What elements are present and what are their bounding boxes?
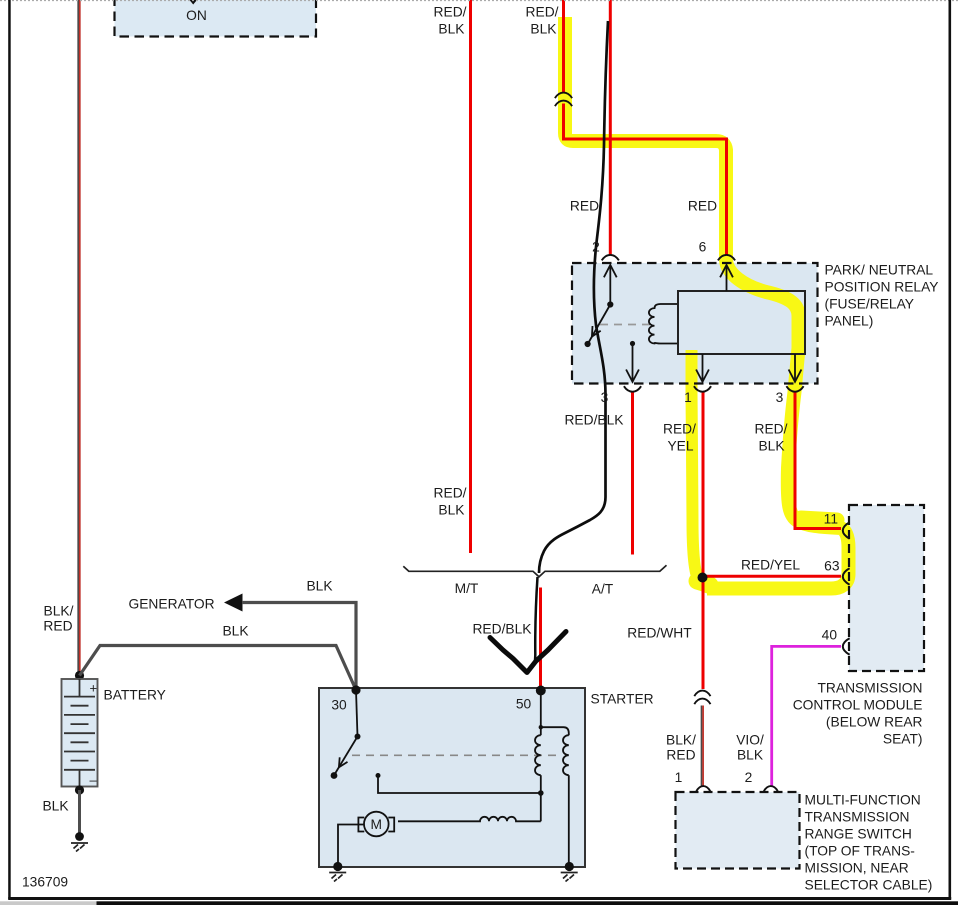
svg-text:RED/WHT: RED/WHT	[627, 625, 692, 640]
svg-text:2: 2	[745, 770, 753, 785]
wire RED/BLK from relay pin 3 left	[631, 393, 634, 555]
starter switch upper dot	[355, 734, 361, 740]
battery top terminal dot	[75, 671, 84, 680]
svg-text:40: 40	[822, 627, 838, 642]
range switch pin 1 connector cap	[696, 786, 710, 791]
relay pin 1 connector cup	[694, 386, 711, 392]
svg-text:SEAT): SEAT)	[883, 731, 923, 746]
range switch pin 2 connector cap	[764, 786, 778, 791]
svg-text:MISSION, NEAR: MISSION, NEAR	[805, 860, 909, 875]
wire RED to relay pin 2	[609, 0, 612, 255]
svg-text:BLK: BLK	[438, 21, 465, 36]
battery plates	[64, 697, 95, 770]
svg-text:BATTERY: BATTERY	[104, 687, 166, 702]
starter motor feed	[540, 793, 542, 821]
svg-text:RED: RED	[43, 618, 72, 633]
BLK/RED battery feed wire (dark stripe)	[77, 0, 79, 672]
svg-text:POSITION RELAY: POSITION RELAY	[825, 279, 939, 294]
relay pin 1 internal arrow down	[702, 354, 704, 380]
wire RED/YEL junction to TCM pin 63	[703, 575, 841, 578]
battery	[62, 671, 98, 852]
TCM pin 63 connector	[843, 568, 850, 584]
relay box fill	[572, 263, 818, 384]
svg-text:BLK: BLK	[222, 623, 249, 638]
highlight stroke A	[565, 17, 849, 589]
starter coil tail to junction	[540, 775, 542, 793]
starter solenoid branch	[541, 727, 569, 735]
relay pin 2 internal arrow up	[609, 266, 611, 305]
M/T A/T bracket	[403, 565, 666, 577]
svg-text:BLK/: BLK/	[666, 732, 696, 747]
highlight blob pin11	[801, 518, 837, 520]
highlight stroke B pin1	[692, 350, 713, 588]
transmission control module	[843, 505, 924, 671]
relay pin 3 right internal arrow down	[794, 354, 796, 380]
starter box fill	[319, 688, 585, 867]
svg-text:6: 6	[699, 239, 707, 254]
ignition ON box	[115, 0, 317, 37]
range switch box fill	[676, 792, 800, 869]
svg-text:TRANSMISSION: TRANSMISSION	[805, 809, 910, 824]
starter pull-in coil	[535, 735, 541, 775]
svg-text:BLK: BLK	[306, 578, 333, 593]
range switch dashed box	[676, 792, 800, 869]
svg-text:2: 2	[592, 239, 600, 254]
thick hand-drawn V arrow at starter feed	[490, 632, 566, 673]
starter hold-in coil	[563, 735, 569, 775]
svg-text:RED/: RED/	[434, 485, 467, 500]
black M/T wire from top	[539, 21, 608, 573]
svg-text:RED/YEL: RED/YEL	[741, 557, 800, 572]
inline connector on RED/BLK no.2	[555, 93, 572, 107]
wire BLK/RED to range switch pin 1 (red stripe)	[702, 706, 704, 787]
svg-text:1: 1	[684, 390, 692, 405]
battery ground symbol	[75, 832, 84, 841]
wire VIO/BLK to TCM pin 40	[772, 646, 841, 786]
svg-text:BLK: BLK	[438, 502, 465, 517]
relay pin 2 connector cap	[602, 255, 619, 261]
generator branch	[80, 594, 357, 691]
hold-in coil ground wire	[568, 775, 570, 864]
junction node dot	[698, 573, 708, 583]
svg-text:–: –	[90, 773, 98, 788]
starter	[319, 685, 585, 881]
motor ground wire	[338, 825, 364, 865]
svg-text:M: M	[371, 817, 383, 832]
svg-text:RED/BLK: RED/BLK	[564, 412, 624, 427]
generator BLK wire	[242, 603, 356, 690]
starter switch arm	[335, 737, 358, 775]
starter dashed actuation link	[352, 754, 557, 756]
svg-text:63: 63	[824, 558, 840, 573]
svg-text:A/T: A/T	[592, 581, 614, 596]
svg-text:VIO/: VIO/	[736, 732, 764, 747]
starter field winding	[398, 817, 541, 822]
highlighter strokes	[565, 17, 849, 589]
svg-text:TRANSMISSION: TRANSMISSION	[817, 680, 922, 695]
TCM pin 11 connector	[843, 522, 850, 538]
svg-text:3: 3	[776, 390, 784, 405]
battery top terminal stub	[79, 679, 81, 697]
svg-text:50: 50	[516, 696, 532, 711]
svg-text:3: 3	[601, 390, 609, 405]
svg-text:BLK: BLK	[42, 798, 69, 813]
TCM box fill	[849, 505, 924, 671]
relay contact rectangle	[678, 291, 805, 354]
relay coil	[649, 304, 678, 344]
starter pin 30 dot	[351, 685, 360, 694]
svg-text:CONTROL MODULE: CONTROL MODULE	[793, 697, 923, 712]
svg-text:YEL: YEL	[667, 438, 693, 453]
relay dashed box	[572, 263, 818, 384]
wire BLK/RED to range switch pin 1 (dark stripe)	[701, 706, 703, 787]
svg-text:PARK/ NEUTRAL: PARK/ NEUTRAL	[825, 262, 934, 277]
svg-text:RED/: RED/	[526, 4, 559, 19]
svg-text:BLK: BLK	[737, 747, 764, 762]
wire RED/YEL from relay pin 1 down	[702, 393, 705, 690]
wire RED/YEL relay pin3 right to TCM pin 11	[795, 393, 841, 529]
svg-text:BLK/: BLK/	[44, 603, 74, 618]
svg-text:+: +	[90, 681, 98, 696]
svg-text:(FUSE/RELAY: (FUSE/RELAY	[825, 296, 914, 311]
relay pin 3 left internal arrow down	[630, 341, 635, 346]
svg-text:PANEL): PANEL)	[825, 313, 874, 328]
relay switch lower contact dot	[585, 341, 591, 347]
svg-text:SELECTOR CABLE): SELECTOR CABLE)	[805, 877, 933, 892]
multi-function transmission range switch	[676, 786, 800, 868]
relay pin 6 connector cap	[718, 255, 735, 261]
starter solenoid feed	[540, 690, 542, 735]
arrow tip remnant	[190, 0, 198, 5]
svg-text:MULTI-FUNCTION: MULTI-FUNCTION	[805, 792, 921, 807]
highlight junction blob	[697, 581, 710, 585]
svg-text:RED/: RED/	[663, 421, 696, 436]
svg-text:BLK: BLK	[758, 438, 785, 453]
svg-text:(TOP OF TRANS-: (TOP OF TRANS-	[805, 843, 915, 858]
svg-text:M/T: M/T	[455, 581, 479, 596]
wire RED/BLK bracket to starter pin 50	[539, 588, 542, 690]
starter box	[319, 688, 585, 867]
wire RED/BLK no.2 upper	[562, 0, 565, 93]
TCM pin 40 connector	[843, 638, 850, 654]
motor M symbol	[364, 812, 389, 837]
inline connector on RED/WHT wire	[694, 691, 710, 705]
battery box	[62, 679, 98, 787]
relay switch upper contact dot	[607, 301, 613, 307]
starter switch stem	[356, 690, 358, 737]
svg-text:(BELOW REAR: (BELOW REAR	[826, 714, 923, 729]
black M/T wire lower tail	[535, 577, 538, 661]
svg-text:GENERATOR: GENERATOR	[129, 596, 215, 611]
svg-text:136709: 136709	[22, 874, 68, 889]
starter contact stub	[378, 776, 541, 794]
svg-text:RED: RED	[570, 198, 599, 213]
svg-text:RED/BLK: RED/BLK	[472, 621, 532, 636]
ignition switch ON box	[115, 0, 317, 37]
battery bottom terminal dot	[75, 785, 84, 794]
relay pin 3 right connector cup	[786, 386, 803, 392]
wire RED/BLK no.1	[469, 0, 472, 553]
svg-text:BLK: BLK	[530, 21, 557, 36]
svg-text:RED: RED	[666, 747, 695, 762]
generator arrowhead	[224, 594, 243, 612]
svg-text:RANGE SWITCH: RANGE SWITCH	[805, 826, 912, 841]
battery BLK wire to ground	[78, 790, 81, 834]
wire RED/BLK no.2 lower run to relay pin 6	[564, 104, 727, 255]
starter left ground	[333, 862, 342, 871]
relay pin 3 left connector cup	[624, 386, 641, 392]
svg-text:RED/: RED/	[434, 4, 467, 19]
BLK/RED battery feed wire (red stripe)	[79, 0, 81, 672]
svg-text:ON: ON	[186, 8, 207, 23]
svg-text:11: 11	[824, 511, 838, 526]
battery box fill	[62, 679, 98, 787]
svg-text:30: 30	[331, 697, 347, 712]
battery bottom terminal stub	[79, 770, 81, 786]
starter switch lower dot	[331, 772, 338, 779]
relay switch arm	[588, 305, 610, 344]
relay pin 6 internal arrow up	[726, 266, 728, 291]
battery BLK wire to starter	[80, 646, 357, 691]
starter pin 50 dot	[536, 686, 546, 696]
starter right ground	[565, 862, 574, 871]
TCM dashed box	[849, 505, 924, 671]
park/neutral position relay	[572, 255, 818, 392]
svg-text:RED: RED	[688, 198, 717, 213]
relay actuation dashed link	[600, 324, 653, 326]
svg-text:RED/: RED/	[755, 421, 788, 436]
svg-text:STARTER: STARTER	[591, 691, 654, 706]
svg-text:1: 1	[675, 770, 683, 785]
